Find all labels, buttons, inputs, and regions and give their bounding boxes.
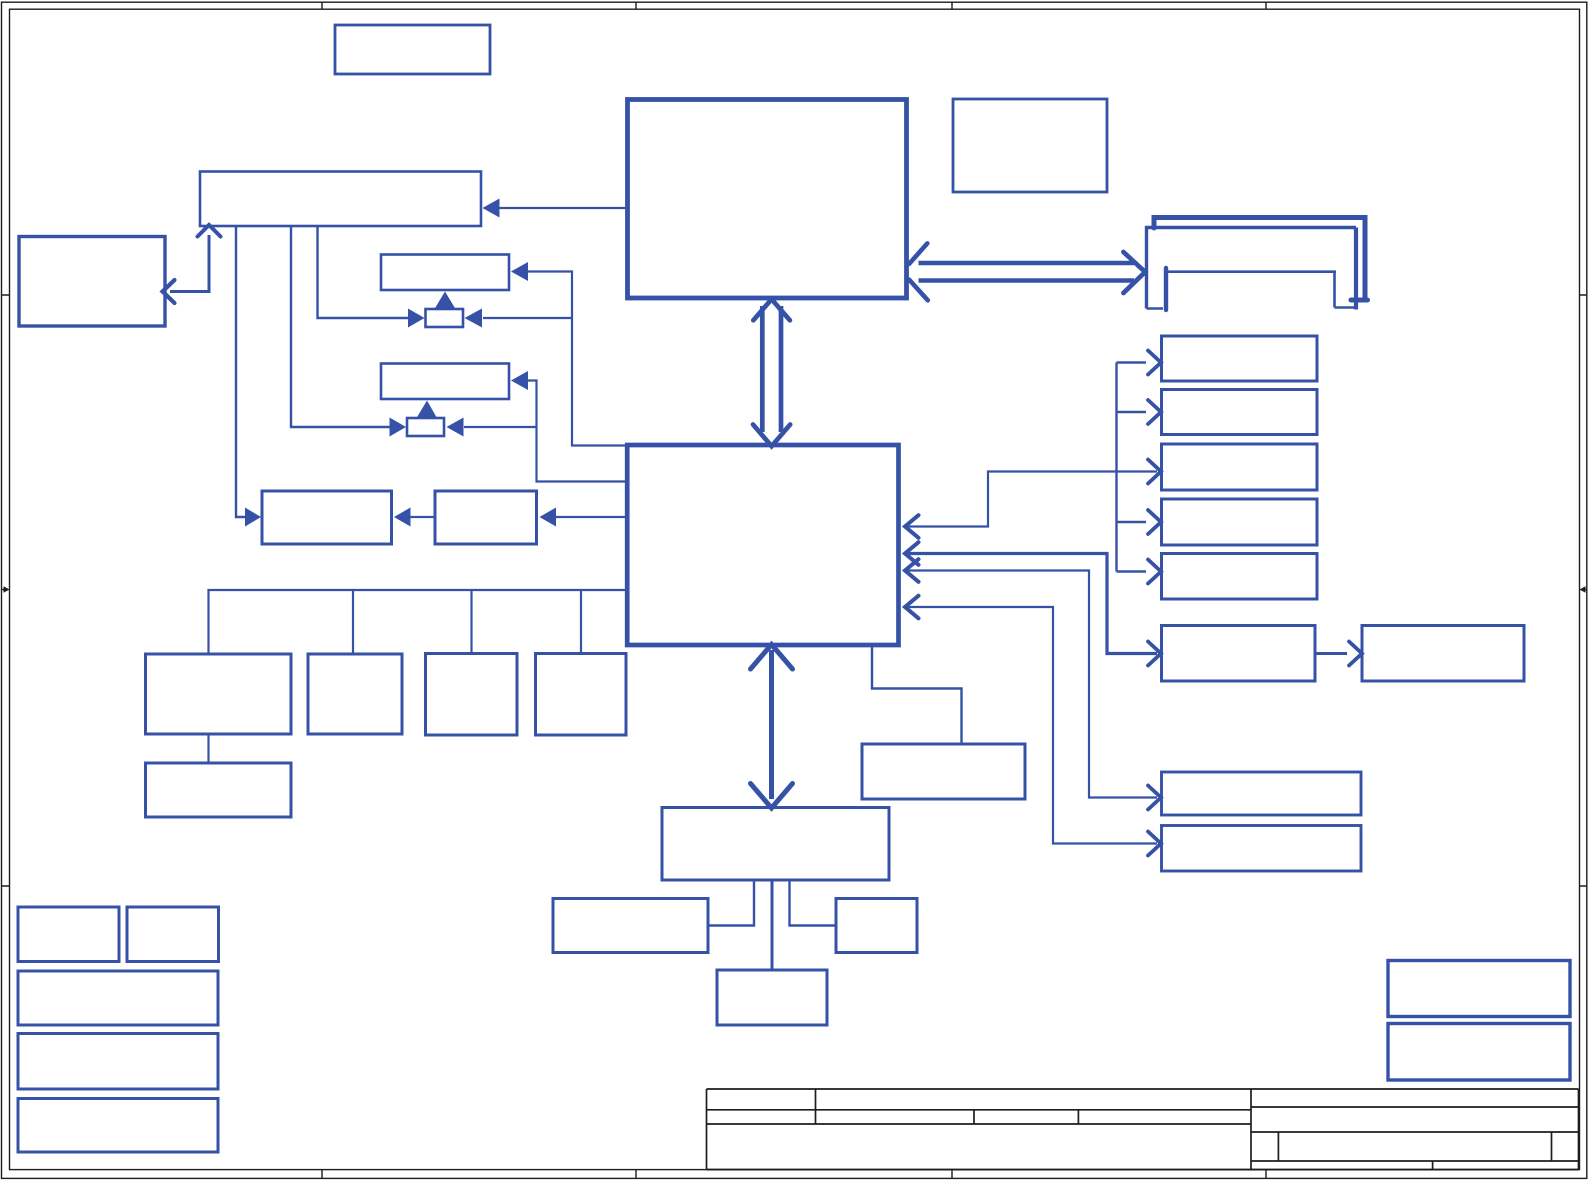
bottom left box	[553, 899, 708, 953]
left center arrow	[2, 586, 10, 593]
wire drop 2 to mux2	[291, 227, 391, 427]
wire big box to bottom lower box	[771, 880, 774, 970]
mux2 small rect	[407, 418, 444, 436]
chevron into stack box2	[1148, 400, 1161, 424]
left box	[19, 237, 165, 327]
wire box6 to box6b	[1315, 652, 1347, 655]
row box 2	[308, 654, 402, 734]
bottom-right pair box A	[1388, 961, 1570, 1017]
box fed from SB bottom right	[862, 744, 1025, 799]
wire SB to mux1	[527, 272, 627, 446]
chevron into stack box1	[1148, 351, 1161, 375]
wire clock box to left box double arrow	[170, 235, 209, 292]
chevron into stack box3	[1148, 460, 1161, 484]
memory slot back bracket	[1154, 218, 1368, 301]
chevron into stack box5	[1148, 560, 1161, 584]
stack bus vertical	[1115, 363, 1117, 572]
wire SB bottom to right lower box	[872, 645, 962, 744]
chevron into stack box4	[1148, 510, 1161, 534]
row box 3	[426, 654, 518, 736]
wire row box1 to sub box	[207, 734, 209, 763]
wire branch mux1 small	[483, 317, 572, 319]
stack branch 5	[1117, 570, 1147, 572]
stack box 4	[1162, 499, 1318, 545]
mux2 triangle	[417, 401, 438, 419]
box right of CPU	[953, 99, 1107, 192]
stack box 1	[1162, 336, 1318, 381]
arrowhead into mux1 rect right	[511, 262, 528, 281]
wire big box to bottom left box	[708, 880, 754, 926]
box8	[1162, 826, 1362, 872]
row sub box	[146, 763, 292, 817]
bottom-left col box A	[18, 907, 119, 962]
bottom-left col box D	[18, 1034, 218, 1090]
box6b	[1362, 626, 1524, 682]
stack box 2	[1162, 390, 1318, 435]
memory slot front bracket	[1147, 228, 1357, 309]
arrow CPU-SB double shaft	[762, 306, 781, 432]
stack box 3	[1162, 444, 1318, 490]
chevron up into clock box	[198, 225, 221, 237]
pair box left	[262, 491, 392, 544]
arrow CPU-SB bottom chevron	[753, 425, 790, 447]
row box 4	[536, 654, 627, 736]
wire drop 1 to pair box	[236, 227, 246, 517]
arrowhead into mux2 rect right	[511, 371, 528, 390]
wire SB to mux2	[527, 381, 627, 482]
CPU block	[628, 100, 907, 299]
arrowhead into mux2 small left	[390, 418, 407, 437]
stack branch 4	[1117, 521, 1147, 523]
arrowhead into clock box right	[483, 199, 500, 218]
wire branch mux2 small	[464, 426, 537, 428]
bottom lower box	[717, 970, 827, 1025]
memory module inner	[1164, 268, 1168, 310]
wire SB to stack (line 1)	[905, 472, 1157, 527]
chevron left into left box	[163, 280, 175, 303]
chevron into box8	[1148, 832, 1161, 856]
arrowhead into mux1 small left	[408, 309, 425, 328]
box top-left	[335, 25, 490, 74]
clock generator box (long)	[200, 172, 481, 227]
chevron into SB line2	[905, 542, 919, 565]
bottom center big box	[662, 808, 889, 881]
chevron into box6b	[1349, 642, 1362, 666]
chevron into SB line4	[905, 596, 919, 619]
wire bus to row boxes	[209, 590, 628, 654]
wire SB to box6 (line 2)	[905, 554, 1157, 654]
bottom-right pair box B	[1388, 1024, 1570, 1081]
arrow CPU-DIMM left chevron	[909, 243, 928, 300]
wire SB to box8 (line 4)	[905, 607, 1157, 844]
title block	[707, 1089, 1579, 1170]
chevron into box7	[1148, 786, 1161, 810]
arrowhead into pair right box	[540, 508, 557, 527]
stack box 5	[1162, 554, 1318, 600]
mux1 triangle	[435, 292, 456, 310]
bottom-left col box C	[18, 971, 218, 1025]
box6	[1162, 626, 1316, 682]
arrow CPU-DIMM double shaft	[919, 263, 1135, 281]
arrowhead into mux1 small right	[465, 309, 483, 328]
stack branch 2	[1117, 411, 1147, 413]
bottom right small box	[836, 899, 917, 953]
wire CPU to clock box	[497, 207, 627, 209]
arrow SB-bottom box shaft	[769, 650, 774, 799]
mux2 upper rect	[381, 364, 509, 400]
wire pair right to pair left	[410, 516, 435, 518]
arrow CPU-DIMM right chevron	[1123, 252, 1145, 293]
arrow SB-bottom bottom chevron	[751, 784, 793, 809]
south bridge block	[627, 445, 898, 645]
arrowhead into pair left box from right	[394, 508, 411, 527]
wire drop 3 to mux1	[318, 227, 410, 318]
chevron into SB line3	[905, 559, 919, 582]
arrowhead into mux2 small right	[447, 418, 464, 437]
mux1 upper rect	[381, 255, 509, 291]
chevron into box6	[1148, 642, 1161, 666]
solid triangle arrowheads	[245, 199, 556, 527]
wire SB to pair right box	[556, 516, 627, 518]
stack branch 1	[1117, 361, 1147, 363]
wire big box to bottom right box	[790, 880, 837, 926]
mux1 small rect	[426, 309, 464, 327]
row box 1	[146, 654, 292, 734]
arrow SB-bottom top chevron	[751, 645, 793, 670]
arrow CPU-SB top chevron	[753, 299, 790, 320]
arrowhead into pair left box from drop1	[245, 508, 261, 527]
bottom-left col box B	[127, 907, 219, 962]
box7	[1162, 772, 1362, 815]
bottom-left col box E	[18, 1099, 218, 1153]
right center arrow	[1580, 586, 1587, 593]
chevron into SB line1	[905, 515, 919, 538]
wire SB to box7 (line 3)	[905, 571, 1157, 798]
pair box right	[435, 491, 537, 544]
